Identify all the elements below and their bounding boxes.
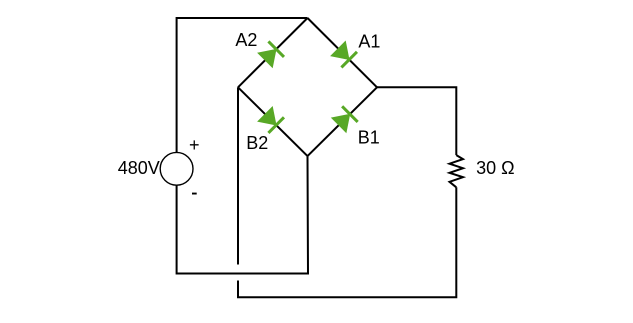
svg-text:A1: A1: [358, 32, 380, 52]
resistor R1 zigzag 30 ohm: [450, 155, 464, 187]
diode A2 (triangle + cathode bar): [257, 40, 285, 68]
diode B2 (triangle + cathode bar): [257, 106, 285, 134]
diamond bridge edge left-top: [238, 18, 308, 87]
diamond bridge edge top-right: [308, 18, 378, 87]
diamond bridge edge bottom-right: [308, 87, 378, 156]
voltage source V1 circle: [160, 152, 193, 185]
svg-text:B2: B2: [246, 133, 268, 153]
wire from bridge left vertex down (lower part after hop) to bottom rail 2: [238, 187, 456, 297]
wire top horizontal from source top to bridge top vertex: [177, 18, 308, 152]
label minus sign of source: [192, 193, 197, 195]
wire from bridge right vertex to resistor top: [377, 87, 456, 155]
wire from bridge left vertex down (upper part, before hop gap): [237, 87, 239, 264]
wire left vertical below source to bottom rail 1: [177, 156, 308, 273]
svg-text:+: +: [189, 135, 200, 155]
svg-text:480V: 480V: [118, 158, 160, 178]
svg-text:30 Ω: 30 Ω: [476, 158, 514, 178]
diode B1 (triangle + cathode bar): [331, 105, 359, 133]
svg-text:B1: B1: [358, 128, 380, 148]
svg-text:A2: A2: [235, 30, 257, 50]
diamond bridge edge left-bottom: [238, 87, 308, 156]
diode A1 (triangle + cathode bar): [330, 41, 358, 69]
